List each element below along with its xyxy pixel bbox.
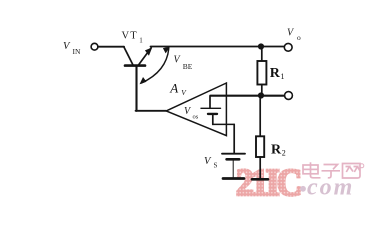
op-amp A_V triangle <box>166 83 226 136</box>
svg-text:V: V <box>287 28 295 39</box>
label V_os <box>184 106 199 121</box>
svg-text:os: os <box>193 114 199 121</box>
terminal lower output <box>285 92 293 100</box>
label V_IN <box>63 41 81 56</box>
watermark registered mark <box>360 164 364 168</box>
terminal V_IN <box>91 43 98 50</box>
watermark 21IC <box>236 161 300 203</box>
source V_os <box>201 97 221 125</box>
svg-text:1: 1 <box>281 72 285 81</box>
label V_S <box>204 156 218 170</box>
svg-text:S: S <box>214 162 218 170</box>
label VT1 <box>122 30 144 44</box>
svg-text:2: 2 <box>282 149 286 158</box>
wire op-amp output horizontal <box>136 110 166 112</box>
label R1 <box>270 66 285 81</box>
svg-text:BE: BE <box>183 62 193 71</box>
label A_V <box>169 81 187 98</box>
svg-text:V: V <box>184 106 192 117</box>
terminal V_o <box>284 43 292 51</box>
svg-text:21IC: 21IC <box>236 161 300 203</box>
svg-text:1: 1 <box>139 36 143 44</box>
svg-text:V: V <box>181 88 187 97</box>
svg-text:VT: VT <box>122 30 138 41</box>
wire input <box>98 46 124 48</box>
svg-text:o: o <box>297 33 301 42</box>
label R2 <box>271 143 286 158</box>
V_BE arrow <box>140 47 169 83</box>
svg-text:V: V <box>63 41 71 52</box>
svg-text:V: V <box>204 156 212 167</box>
label V_o <box>287 28 301 42</box>
svg-text:A: A <box>169 81 178 96</box>
node junction mid <box>258 92 264 98</box>
watermark char 子 <box>322 165 341 178</box>
wire V_os to V_S <box>213 124 234 153</box>
watermark char 电 <box>303 162 321 178</box>
watermark char 网 <box>343 164 361 179</box>
resistor R1 <box>257 50 266 96</box>
battery V_S <box>222 154 245 178</box>
label V_BE <box>174 55 193 72</box>
watermark .com <box>300 175 354 201</box>
wire feedback rail <box>210 95 284 97</box>
svg-text:com: com <box>307 175 354 201</box>
svg-text:R: R <box>270 66 281 81</box>
transistor VT1 <box>124 47 152 66</box>
ground bar under V_S <box>223 177 244 180</box>
svg-text:V: V <box>174 55 182 66</box>
ground bar under R2 <box>252 178 268 181</box>
node junction top <box>258 43 264 49</box>
svg-text:IN: IN <box>73 47 81 56</box>
wire base/output vertical <box>135 67 137 111</box>
wire top rail <box>151 46 285 48</box>
svg-text:R: R <box>271 143 282 158</box>
resistor R2 <box>256 99 264 179</box>
